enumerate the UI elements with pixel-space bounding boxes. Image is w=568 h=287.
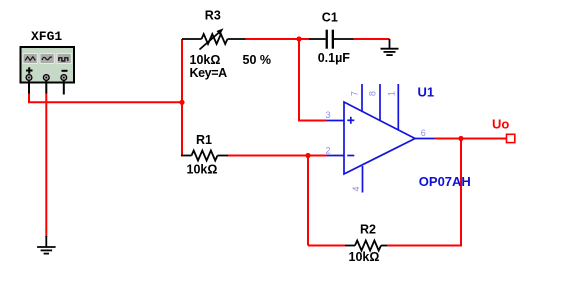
svg-text:1: 1 — [387, 91, 397, 96]
svg-text:3: 3 — [326, 110, 331, 120]
svg-text:0.1µF: 0.1µF — [318, 51, 351, 65]
svg-text:Uo: Uo — [492, 116, 509, 131]
svg-text:4: 4 — [351, 186, 361, 191]
svg-text:C1: C1 — [322, 11, 338, 25]
svg-text:50 %: 50 % — [243, 53, 272, 67]
svg-text:Key=A: Key=A — [190, 66, 228, 80]
svg-text:7: 7 — [350, 91, 360, 96]
svg-text:10kΩ: 10kΩ — [349, 250, 380, 264]
svg-text:10kΩ: 10kΩ — [190, 53, 221, 67]
svg-text:R3: R3 — [205, 9, 221, 23]
svg-text:6: 6 — [421, 128, 426, 138]
svg-text:XFG1: XFG1 — [31, 29, 62, 44]
svg-text:2: 2 — [326, 146, 331, 156]
svg-text:8: 8 — [368, 91, 378, 96]
svg-text:10kΩ: 10kΩ — [187, 163, 218, 177]
svg-text:R2: R2 — [360, 222, 376, 236]
svg-text:R1: R1 — [196, 133, 212, 147]
svg-text:OP07AH: OP07AH — [419, 174, 471, 189]
svg-text:U1: U1 — [418, 85, 435, 100]
